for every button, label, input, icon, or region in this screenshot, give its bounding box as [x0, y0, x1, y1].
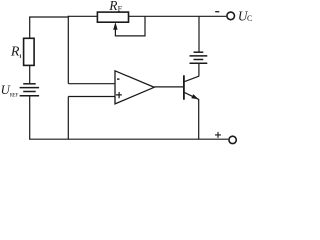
svg-text:C: C [247, 14, 252, 23]
battery B2 plate long [190, 55, 208, 57]
battery B2 plate short [194, 59, 204, 61]
battery UREF plate short top [23, 83, 36, 85]
label R1 subscript tick [19, 54, 21, 58]
svg-text:R: R [108, 0, 117, 13]
wire R1 top lead [29, 17, 31, 38]
wire top rail right segment [68, 15, 98, 17]
potentiometer RP body [97, 12, 128, 22]
op-amp plus sign [116, 92, 122, 98]
wire battery B2 bottom lead to collector corner [198, 63, 200, 76]
svg-text:F: F [16, 94, 19, 99]
battery B2 plate long bottom [190, 62, 208, 64]
wire top rail left segment [29, 16, 69, 18]
wire inverting input [68, 83, 115, 85]
transistor Q1 emitter arrowhead [191, 94, 198, 99]
op-amp minus sign [117, 78, 120, 80]
terminal circle plus output [229, 136, 236, 143]
wire top rail to output terminal [129, 15, 227, 17]
resistor R1 body [24, 38, 34, 65]
battery UREF plate long bottom [20, 95, 39, 97]
plus polarity sign [215, 132, 221, 138]
battery UREF plate short [23, 91, 36, 93]
wire op-amp output to base [154, 86, 183, 88]
minus polarity sign [215, 11, 219, 13]
battery UREF plate long [20, 87, 39, 89]
wire noninverting input [68, 96, 115, 98]
transistor Q1 collector diagonal [185, 76, 199, 81]
wire feedback vertical to inverting input [67, 16, 69, 84]
wire battery UREF down left rail [29, 96, 31, 139]
transistor Q1 emitter diagonal [185, 93, 199, 140]
wire wiper return loop [115, 16, 145, 36]
battery B2 plate short top [194, 51, 204, 53]
terminal circle minus output [227, 12, 235, 20]
wire bottom rail [29, 138, 228, 140]
wire noninverting down to bottom rail [67, 97, 69, 140]
op-amp U1 triangle [115, 71, 154, 104]
wire R1 to battery UREF [29, 65, 31, 83]
svg-text:F: F [118, 5, 123, 14]
transistor Q1 base bar [183, 75, 185, 99]
svg-text:R: R [10, 44, 20, 59]
wire battery B2 top lead [198, 16, 200, 52]
potentiometer wiper arrowhead [113, 22, 117, 30]
